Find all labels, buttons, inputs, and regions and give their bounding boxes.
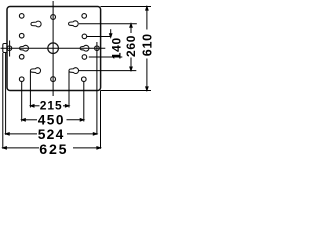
svg-text:625: 625: [39, 142, 68, 158]
svg-text:450: 450: [38, 113, 65, 128]
svg-text:610: 610: [140, 33, 154, 56]
svg-text:524: 524: [38, 127, 65, 142]
svg-text:140: 140: [109, 37, 123, 59]
svg-text:260: 260: [124, 35, 138, 57]
svg-text:215: 215: [40, 98, 63, 112]
